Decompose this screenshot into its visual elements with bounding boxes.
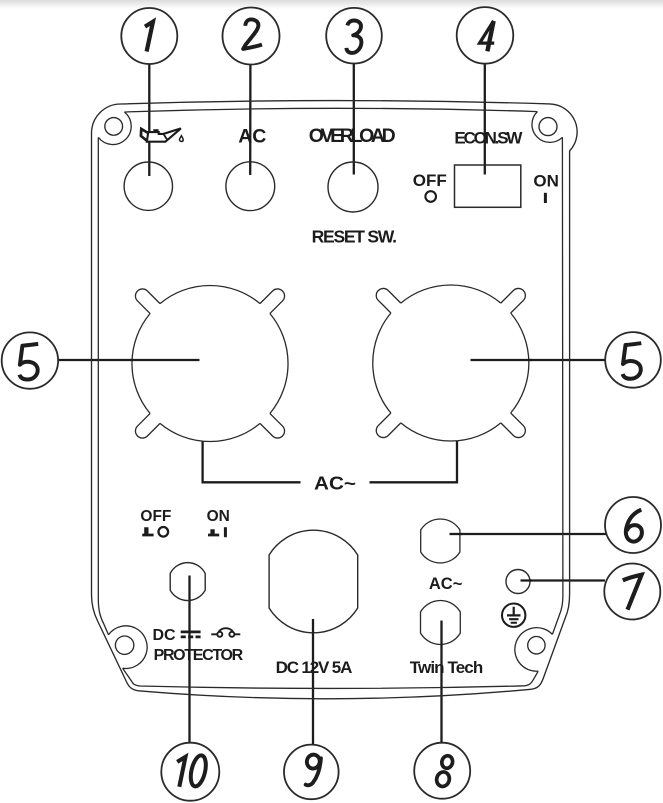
callout circle 1 bbox=[121, 8, 177, 64]
svg-text:AC~: AC~ bbox=[429, 575, 463, 593]
svg-text:OVERLOAD: OVERLOAD bbox=[309, 125, 396, 147]
wire leader 5 right tip bbox=[471, 359, 533, 361]
callout circle 6 bbox=[605, 497, 661, 553]
econ I symbol bbox=[544, 193, 547, 203]
DC symbol bbox=[181, 631, 201, 639]
OFF O symbol bbox=[159, 527, 169, 537]
svg-text:Twin Tech: Twin Tech bbox=[410, 658, 484, 677]
OFF lever symbol bbox=[142, 527, 153, 536]
svg-text:DC: DC bbox=[152, 627, 176, 644]
ON lever symbol bbox=[208, 529, 219, 536]
wire leader 9 tip bbox=[312, 619, 314, 633]
wire leader 6 bbox=[450, 533, 607, 535]
callout circle 2 bbox=[223, 8, 280, 65]
indicator lamp 3 (overload) bbox=[328, 162, 378, 212]
indicator lamp 1 (oil) bbox=[124, 162, 172, 210]
wire AC~ bracket left bbox=[203, 442, 301, 483]
wire leader 5 left tip bbox=[130, 359, 200, 361]
wire AC~ bracket right bbox=[370, 441, 458, 482]
svg-text:RESET SW.: RESET SW. bbox=[312, 226, 397, 246]
wire leader 5 left bbox=[57, 359, 200, 361]
wire leader 1 bbox=[148, 62, 150, 176]
DC 12V outlet (9) bbox=[269, 530, 358, 633]
wire leader 6 tip bbox=[450, 533, 463, 535]
wire leader 8 bbox=[440, 621, 442, 744]
ground symbol glyph bbox=[507, 607, 521, 624]
callout circle 7 bbox=[604, 564, 660, 620]
svg-text:ON: ON bbox=[207, 508, 230, 525]
AC outlet right (5) bbox=[373, 285, 529, 441]
wire leader 8 tip bbox=[440, 621, 442, 646]
econ O symbol bbox=[425, 191, 436, 202]
callout circle 3 bbox=[326, 8, 382, 64]
ground terminal circle (7) bbox=[506, 570, 530, 594]
callout circle 9 bbox=[284, 745, 339, 800]
screw top-left bbox=[105, 118, 123, 136]
svg-text:ECON.SW: ECON.SW bbox=[454, 128, 523, 147]
screw bottom-left bbox=[115, 636, 133, 654]
Twin Tech connector (8) bbox=[421, 601, 461, 645]
callout circle 4 bbox=[457, 7, 514, 64]
wire leader 2 bbox=[249, 62, 251, 175]
svg-text:AC: AC bbox=[238, 126, 266, 148]
wire leader 5 right bbox=[471, 359, 607, 361]
ON I symbol bbox=[224, 527, 227, 537]
ground symbol circle bbox=[502, 604, 525, 627]
svg-text:ON: ON bbox=[533, 171, 559, 190]
DC protector button (10) bbox=[170, 563, 205, 601]
page top scan gradient bbox=[0, 0, 663, 9]
callout circle 5 left bbox=[2, 332, 58, 388]
callout circle 5 right bbox=[605, 332, 661, 388]
svg-text:DC 12V 5A: DC 12V 5A bbox=[276, 658, 353, 677]
wire leader 10 inner tip bbox=[188, 576, 190, 601]
wire leader 7 bbox=[521, 579, 606, 581]
AC outlet left (5) bbox=[132, 285, 288, 441]
screw bottom-right bbox=[528, 637, 545, 654]
callout circle 10 bbox=[161, 743, 219, 801]
screw boss bottom-left bbox=[109, 626, 148, 669]
screw boss top-right bbox=[532, 112, 562, 143]
svg-text:OFF: OFF bbox=[140, 508, 171, 525]
indicator lamp 2 (AC) bbox=[226, 162, 275, 211]
svg-text:PROTECTOR: PROTECTOR bbox=[154, 647, 244, 664]
screw top-right bbox=[539, 118, 557, 136]
screw boss bottom-right bbox=[515, 628, 553, 672]
panel inner outline bbox=[124, 108, 537, 112]
wire leader 9 bbox=[312, 619, 314, 746]
svg-text:OFF: OFF bbox=[413, 171, 447, 190]
AC~ parallel connector (6) bbox=[421, 519, 460, 563]
wire leader 10 bbox=[188, 576, 190, 745]
callout circle 8 bbox=[414, 743, 470, 799]
oil warning icon bbox=[141, 128, 183, 141]
svg-text:AC~: AC~ bbox=[314, 473, 356, 494]
panel outer outline bbox=[92, 101, 578, 699]
screw boss top-left bbox=[98, 112, 131, 145]
wire leader 7 tip bbox=[521, 579, 533, 581]
wire leader 3 bbox=[353, 62, 355, 175]
wire leader 4 bbox=[484, 62, 486, 175]
ECON switch rectangle bbox=[455, 165, 521, 207]
circuit breaker symbol bbox=[211, 628, 240, 637]
